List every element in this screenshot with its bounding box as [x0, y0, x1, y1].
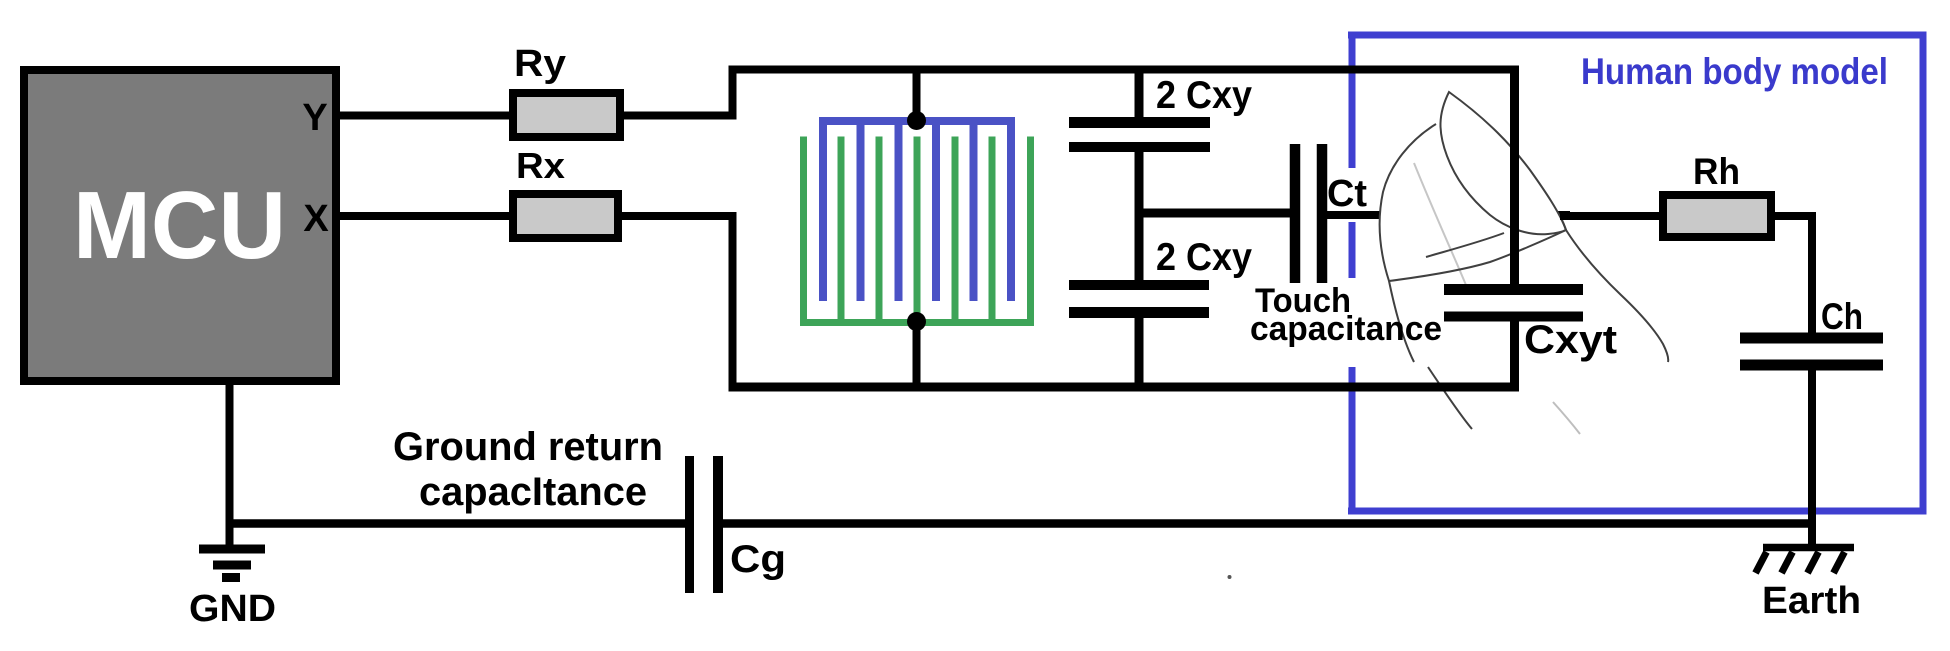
svg-text:Y: Y [302, 97, 327, 139]
blue comb electrode (Y) [819, 118, 1015, 301]
wire Ry to panel [620, 112, 737, 120]
capacitor Cg plates [685, 456, 694, 593]
capacitor Ct plates [1290, 144, 1301, 283]
svg-text:Rh: Rh [1693, 151, 1740, 192]
svg-text:2 Cxy: 2 Cxy [1156, 74, 1252, 117]
svg-text:Human body model: Human body model [1581, 51, 1888, 92]
svg-text:Ground return: Ground return [393, 425, 663, 469]
resistor Rx [513, 194, 618, 238]
finger shading streak 2 [1553, 402, 1580, 434]
svg-text:MCU: MCU [73, 172, 286, 279]
svg-text:Ct: Ct [1327, 173, 1367, 215]
wire top rail to capacitor 2Cxy upper [1135, 70, 1144, 121]
fingernail oval [1440, 92, 1566, 234]
human body model blue box [1348, 32, 1927, 515]
resistor Rh [1663, 195, 1771, 237]
top rail [729, 66, 1520, 74]
bottom ground wire left [226, 519, 690, 528]
wire middle node to 2Cxy lower [1135, 209, 1144, 284]
wire top rail to Y electrode [913, 70, 921, 121]
middle wire to Ct [1135, 209, 1291, 218]
svg-text:Cxyt: Cxyt [1524, 318, 1617, 362]
wire Ch to earth [1808, 370, 1816, 545]
fingertip left outline [1380, 124, 1436, 362]
svg-text:Cg: Cg [730, 538, 786, 581]
svg-text:X: X [303, 198, 329, 240]
wire Y pin to Ry [336, 112, 515, 120]
ground symbol GND [199, 545, 265, 554]
wire 2Cxy lower to bottom rail [1135, 310, 1144, 390]
junction dot bottom electrode [907, 312, 926, 331]
green comb electrode (X) [800, 137, 1034, 327]
fingertip bottom outline [1389, 230, 1566, 281]
wire corner down to Ch [1808, 212, 1816, 333]
wire finger to Rh [1560, 212, 1663, 220]
svg-text:capacItance: capacItance [419, 470, 647, 514]
wire bottom rail to X electrode [913, 322, 921, 387]
wire Rh to corner [1771, 212, 1816, 220]
resistor Ry [513, 93, 620, 137]
earth symbol [1763, 544, 1854, 552]
svg-text:Ry: Ry [514, 43, 566, 85]
fingertip white fill [1380, 92, 1566, 281]
junction dot top electrode [907, 111, 926, 130]
panel right edge upper [1510, 66, 1519, 291]
finger pad crease [1426, 233, 1504, 257]
finger shading streak [1414, 163, 1468, 290]
wire 2Cxy upper to middle node [1135, 144, 1144, 218]
wire corner down to bottom rail [729, 212, 737, 391]
capacitor 2Cxy upper plates [1069, 117, 1210, 128]
svg-text:capacitance: capacitance [1250, 310, 1442, 348]
wire corner up to top rail [729, 66, 737, 120]
bottom rail [729, 383, 1520, 392]
stray speck [1228, 575, 1232, 579]
wire Ct to Rh (under finger) [1327, 211, 1570, 219]
capacitor Cxyt plates [1444, 284, 1583, 295]
wire Rx to panel [618, 212, 737, 220]
capacitor Ch plates [1740, 333, 1883, 344]
MCU box U1 [24, 70, 336, 381]
svg-text:GND: GND [189, 588, 276, 630]
capacitor 2Cxy lower plates [1069, 280, 1209, 290]
svg-text:Ch: Ch [1821, 296, 1863, 337]
finger drawing (human body model) [1380, 92, 1669, 434]
finger right outline [1561, 218, 1668, 362]
wire MCU to GND node [226, 381, 234, 549]
panel right edge lower [1510, 316, 1519, 391]
bottom ground wire right [718, 519, 1816, 528]
svg-text:Earth: Earth [1762, 580, 1861, 622]
svg-text:Rx: Rx [516, 145, 565, 186]
finger lower-left outline [1428, 367, 1472, 429]
svg-text:2 Cxy: 2 Cxy [1156, 236, 1252, 279]
wire X pin to Rx [336, 212, 515, 220]
